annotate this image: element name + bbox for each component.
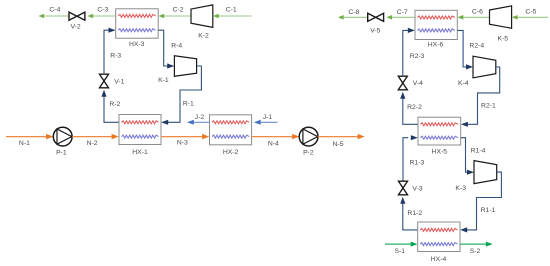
- stream C-8 line: [344, 16, 368, 18]
- stream C-4 line: [45, 15, 70, 17]
- stream J-1 line: [260, 121, 278, 123]
- stream C-1 line: [219, 15, 252, 17]
- arrowhead R-3 into HX-3: [109, 28, 116, 33]
- svg-text:R-2: R-2: [109, 101, 120, 108]
- stream N-3 arrowhead into HX-2: [202, 134, 209, 139]
- svg-text:V-5: V-5: [370, 28, 380, 35]
- wire R2-3 from V-4 to HX-6: [403, 30, 408, 76]
- svg-text:R1-3: R1-3: [410, 159, 425, 166]
- stream N-2 arrowhead into HX-1: [112, 134, 119, 139]
- heat-exchanger HX-6: [415, 10, 457, 39]
- svg-text:K-5: K-5: [498, 35, 509, 42]
- svg-text:C-5: C-5: [525, 9, 536, 16]
- arrowhead R-4 into K-1: [167, 63, 174, 68]
- svg-text:K-3: K-3: [455, 185, 466, 192]
- stream J-2 arrowhead: [187, 120, 194, 125]
- svg-text:N-1: N-1: [19, 140, 30, 147]
- svg-text:K-1: K-1: [158, 77, 169, 84]
- svg-text:HX-3: HX-3: [129, 41, 145, 48]
- arrowhead R2-3 into HX-6: [408, 28, 415, 33]
- pump P-1: [53, 127, 72, 146]
- svg-text:HX-5: HX-5: [432, 148, 448, 155]
- svg-text:J-1: J-1: [263, 114, 273, 121]
- svg-text:V-3: V-3: [412, 186, 422, 193]
- arrowhead R1-4 into K-3: [467, 170, 474, 175]
- svg-text:R2-4: R2-4: [469, 43, 484, 50]
- arrowhead R-1 into HX-1: [161, 120, 168, 125]
- stream C-7 line: [392, 16, 415, 18]
- svg-text:C-6: C-6: [472, 9, 483, 16]
- wire R-4 from HX-3 to K-1: [158, 30, 168, 66]
- svg-text:P-1: P-1: [56, 149, 67, 156]
- arrowhead R1-2 into V-3: [400, 197, 405, 204]
- wire R1-2 from HX-4 to V-3: [403, 204, 418, 230]
- stream C-1 arrowhead into K-2: [213, 14, 219, 19]
- compressor K-4: [473, 56, 496, 78]
- compressor K-3: [474, 161, 497, 184]
- arrowhead R1-3 into HX-5: [411, 135, 418, 140]
- svg-text:S-1: S-1: [395, 248, 406, 255]
- stream N-3 line: [161, 136, 204, 138]
- wire R-1 from K-1 to HX-1: [168, 66, 202, 122]
- stream C-6 arrowhead into HX-6: [458, 15, 464, 20]
- svg-text:R-4: R-4: [171, 42, 182, 49]
- svg-text:V-1: V-1: [114, 79, 124, 86]
- stream C-2 line: [164, 15, 191, 17]
- arrowhead R-2 into V-1: [101, 90, 106, 97]
- heat-exchanger HX-5: [418, 117, 461, 145]
- wire R-3 from V-1 to HX-3: [104, 30, 109, 74]
- wire R2-2 from HX-5 to V-4: [403, 99, 418, 125]
- svg-text:R2-1: R2-1: [481, 102, 496, 109]
- svg-text:N-3: N-3: [177, 139, 188, 146]
- heat-exchanger HX-4: [418, 222, 460, 252]
- valve V-5: [368, 13, 384, 21]
- svg-text:V-2: V-2: [70, 24, 80, 31]
- stream J-2 line from HX-2: [194, 121, 210, 123]
- stream S-2 arrowhead: [486, 242, 493, 247]
- stream S-2 line: [460, 243, 486, 245]
- svg-text:K-2: K-2: [198, 33, 209, 40]
- stream N-4 arrowhead into P-2: [292, 134, 299, 139]
- svg-text:R2-2: R2-2: [407, 104, 422, 111]
- heat-exchanger HX-3: [116, 9, 159, 38]
- stream N-5 arrowhead: [358, 134, 365, 139]
- valve V-2: [69, 12, 85, 20]
- svg-text:N-4: N-4: [268, 141, 279, 148]
- svg-text:R-3: R-3: [110, 52, 121, 59]
- stream S-1 arrowhead into HX-4: [411, 242, 418, 247]
- stream N-2 line: [72, 136, 113, 138]
- heat-exchanger HX-2: [210, 115, 252, 145]
- compressor K-1: [174, 56, 196, 77]
- stream N-1 arrowhead into P-1: [46, 134, 53, 139]
- svg-text:K-4: K-4: [458, 80, 469, 87]
- svg-text:C-2: C-2: [173, 7, 184, 14]
- svg-text:C-8: C-8: [348, 9, 359, 16]
- svg-text:R-1: R-1: [183, 101, 194, 108]
- compressor K-2: [191, 5, 213, 28]
- valve V-3: [399, 181, 408, 195]
- svg-text:J-2: J-2: [195, 114, 205, 121]
- arrowhead R2-1 into HX-5: [461, 122, 468, 127]
- svg-text:C-1: C-1: [226, 7, 237, 14]
- svg-text:C-3: C-3: [97, 7, 108, 14]
- svg-text:P-2: P-2: [303, 150, 314, 157]
- wire R1-3 from V-3 to HX-5: [403, 138, 408, 181]
- stream C-3 arrowhead into V-2: [87, 14, 93, 19]
- stream J-1 arrowhead into HX-2: [254, 120, 261, 125]
- svg-text:HX-1: HX-1: [132, 149, 148, 156]
- stream N-5 line: [318, 136, 358, 138]
- valve V-4: [398, 76, 407, 90]
- svg-text:N-5: N-5: [333, 141, 344, 148]
- stream C-6 line: [463, 16, 489, 18]
- heat-exchanger HX-1: [119, 115, 161, 145]
- svg-text:R1-1: R1-1: [481, 207, 496, 214]
- svg-text:N-2: N-2: [87, 140, 98, 147]
- stream C-5 arrowhead into K-5: [512, 15, 518, 20]
- svg-text:HX-2: HX-2: [223, 149, 239, 156]
- svg-text:C-4: C-4: [49, 7, 60, 14]
- wire R2-1 from K-4 to HX-5: [467, 67, 500, 124]
- stream C-4 arrowhead: [38, 14, 44, 19]
- stream S-1 line: [385, 243, 412, 245]
- wire R2-4 from HX-6 to K-4: [457, 30, 467, 67]
- compressor K-5: [490, 6, 512, 28]
- stream C-2 arrowhead into HX-3: [158, 14, 164, 19]
- svg-text:C-7: C-7: [397, 9, 408, 16]
- svg-text:S-2: S-2: [470, 248, 481, 255]
- arrowhead R2-4 into K-4: [466, 64, 473, 69]
- stream N-4 line: [252, 136, 294, 138]
- svg-text:R2-3: R2-3: [410, 53, 425, 60]
- svg-text:HX-4: HX-4: [431, 256, 447, 263]
- wire R-2 from HX-1 to V-1: [104, 97, 119, 123]
- wire R1-1 from K-3 to HX-4: [467, 172, 502, 230]
- svg-text:HX-6: HX-6: [428, 41, 444, 48]
- stream C-5 line: [518, 16, 548, 18]
- pump P-2: [299, 127, 318, 146]
- stream C-3 line: [93, 15, 116, 17]
- svg-text:V-4: V-4: [413, 80, 423, 87]
- arrowhead R2-2 into V-4: [400, 92, 405, 99]
- stream C-8 arrowhead: [338, 15, 344, 20]
- arrowhead R1-1 into HX-4: [460, 227, 467, 232]
- stream N-1 line: [6, 136, 47, 138]
- svg-text:R1-4: R1-4: [471, 147, 486, 154]
- svg-text:R1-2: R1-2: [407, 210, 422, 217]
- stream C-7 arrowhead into V-5: [386, 15, 392, 20]
- valve V-1: [100, 74, 109, 88]
- wire R1-4 from HX-5 to K-3: [461, 138, 468, 173]
